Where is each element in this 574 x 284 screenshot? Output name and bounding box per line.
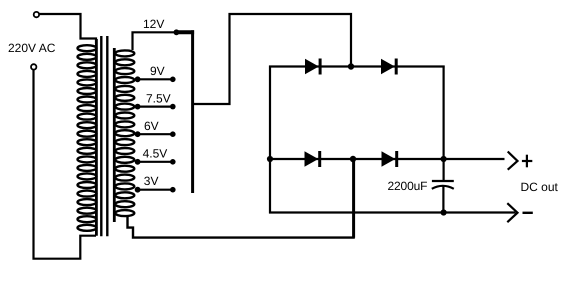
wire: 7.5V tap: [137, 105, 174, 107]
node: 6V tap coil junction: [135, 131, 141, 137]
node: top row junction: [348, 63, 354, 69]
diode D3: [305, 151, 320, 167]
wire: secondary bottom lead to return bus: [128, 216, 355, 238]
wire: bridge left vertical: [269, 66, 271, 214]
wire: 4.5V tap: [137, 161, 174, 163]
node: 4.5V tap coil junction: [135, 159, 141, 165]
capacitor C1 bottom plate (curved): [432, 186, 454, 189]
svg-text:220V AC: 220V AC: [8, 41, 56, 55]
transformer T secondary winding: [114, 48, 134, 222]
svg-text:3V: 3V: [144, 174, 159, 188]
wire: bridge bottom row to - output: [269, 211, 516, 213]
wire: selector link (thick) from 12V tap: [176, 30, 194, 34]
svg-text:2200uF: 2200uF: [388, 179, 428, 193]
wire: bridge top row: [269, 65, 445, 67]
wire: center return (thick) from middle row down: [352, 159, 355, 238]
svg-text:7.5V: 7.5V: [146, 91, 171, 105]
svg-text:12V: 12V: [143, 17, 164, 31]
node: 3V tap coil junction: [135, 187, 141, 193]
wire: bridge right vertical: [443, 66, 445, 181]
node: middle row center junction: [350, 156, 356, 162]
node: 9V tap coil junction: [135, 76, 141, 82]
node: middle row right junction: [441, 156, 447, 162]
node: bottom row capacitor junction: [441, 209, 447, 215]
wire: selector to bridge top (via top link): [194, 14, 352, 104]
svg-text:DC out: DC out: [521, 180, 559, 194]
svg-text:9V: 9V: [150, 64, 165, 78]
wire: secondary top lead / 12V tap: [133, 32, 177, 50]
wire: bridge middle row to + output: [269, 158, 505, 160]
svg-text:4.5V: 4.5V: [143, 147, 168, 161]
node: 3V tap terminal: [170, 187, 176, 193]
node: 6V tap terminal: [170, 131, 176, 137]
diode D2: [381, 59, 396, 75]
wire: 6V tap: [137, 133, 174, 135]
node: 12V tap terminal: [174, 29, 180, 35]
terminal T2 (220V AC bottom): [31, 64, 36, 69]
terminal T1 (220V AC top): [34, 12, 39, 17]
wire: selector bus vertical: [191, 30, 194, 193]
svg-text:6V: 6V: [144, 119, 159, 133]
transformer core: [101, 36, 107, 236]
wire: T1 to primary winding top: [39, 14, 96, 44]
node: 9V tap terminal: [170, 77, 176, 83]
wire: 9V tap: [137, 78, 174, 80]
diode D1: [305, 59, 320, 75]
diode D4: [382, 151, 397, 167]
wire: T2 down and around to primary winding bottom: [34, 70, 97, 259]
capacitor C1 top plate: [432, 180, 454, 182]
label +: [522, 155, 532, 168]
node: 4.5V tap terminal: [170, 159, 176, 165]
label -: [523, 212, 533, 214]
arrow: + output: [508, 152, 518, 170]
node: 7.5V tap terminal: [170, 104, 176, 110]
transformer T primary winding: [78, 39, 97, 236]
wire: 3V tap: [137, 189, 174, 191]
wire: capacitor C1 lower lead: [442, 186, 444, 212]
node: middle row left junction: [267, 156, 273, 162]
arrow: - output: [507, 203, 517, 222]
node: 7.5V tap coil junction: [135, 104, 141, 110]
